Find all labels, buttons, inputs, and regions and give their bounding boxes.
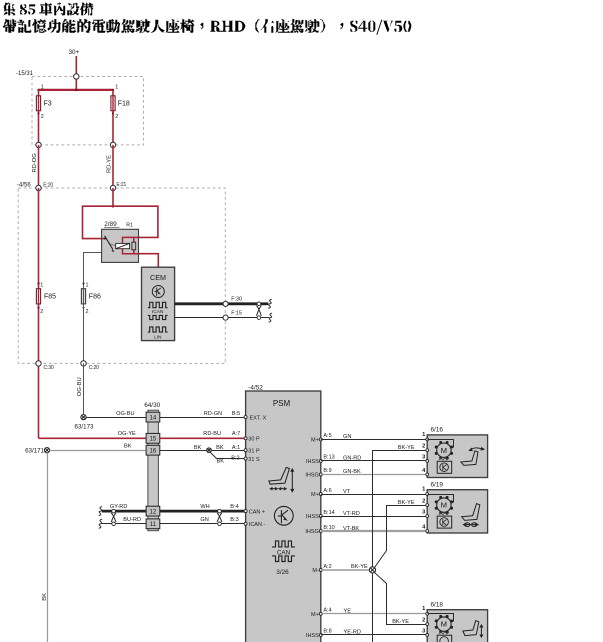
svg-text:16: 16 xyxy=(150,449,157,455)
splice 63/171 xyxy=(44,448,49,453)
svg-text:BK: BK xyxy=(216,445,224,451)
CEM area box 4/56 (dashed) xyxy=(18,188,225,363)
6/16 K box xyxy=(437,461,452,473)
pin 2 dot F85 xyxy=(37,307,39,309)
svg-text:OG-BU: OG-BU xyxy=(77,377,83,396)
6/18 link zigzag xyxy=(439,632,449,634)
svg-text:CAN +: CAN + xyxy=(249,509,265,515)
svg-text:M-: M- xyxy=(312,568,319,574)
seat motor module 6/18 xyxy=(427,610,487,642)
svg-text:30+: 30+ xyxy=(69,49,80,56)
CEM ICAN wave upper xyxy=(148,302,168,307)
CEM K symbol xyxy=(152,286,164,298)
svg-text:1: 1 xyxy=(41,85,44,91)
fuse F18 xyxy=(111,96,115,111)
svg-text:OG-BU: OG-BU xyxy=(116,411,134,417)
wire RD-OG xyxy=(38,145,40,188)
junction dot relay feed xyxy=(112,205,115,208)
svg-text:31 P: 31 P xyxy=(248,448,260,454)
svg-text:E:20: E:20 xyxy=(43,182,53,188)
wire RD-GN pin14 to PSM EXT.X xyxy=(160,417,244,419)
svg-text:F85: F85 xyxy=(44,293,56,300)
svg-text:VT-BK: VT-BK xyxy=(343,526,359,532)
control module PSM 4/52 xyxy=(246,391,321,642)
wire break curl F:30 xyxy=(268,299,271,308)
svg-text:IHSS: IHSS xyxy=(306,514,319,520)
wire relay to F86 xyxy=(84,253,102,290)
svg-text:1: 1 xyxy=(86,283,89,289)
connector circle at 15/31 top xyxy=(74,74,79,79)
wire YE-RD to 6/18 pin3 xyxy=(321,634,427,636)
svg-text:M: M xyxy=(441,620,447,629)
CEM LIN wave xyxy=(148,327,168,332)
6/16 pin 1 circle xyxy=(426,438,429,441)
wire BK pin16 to PSM 31P xyxy=(160,450,244,452)
PSM right pin B:14 xyxy=(319,515,322,518)
control module CEM xyxy=(142,267,175,340)
pin 15 of 64/30 xyxy=(146,433,160,443)
wire WH pin12 to PSM CAN+ xyxy=(160,510,244,513)
PSM right pin B:9 xyxy=(319,473,322,476)
svg-text:1: 1 xyxy=(115,85,118,91)
PSM CAN wave lower xyxy=(272,556,295,562)
svg-text:A:7: A:7 xyxy=(232,431,240,437)
svg-text:IHSS: IHSS xyxy=(306,633,319,639)
svg-text:GN: GN xyxy=(343,434,351,440)
svg-text:F:30: F:30 xyxy=(231,296,242,302)
connector C20 xyxy=(81,361,86,366)
PSM left pin at y=417.1 xyxy=(244,416,247,419)
svg-text:BK-YE: BK-YE xyxy=(398,445,415,451)
wire relay coil feed (right loop) xyxy=(113,206,158,237)
twisted pair symbol left xyxy=(111,509,116,525)
wire break curl GY-RD xyxy=(99,507,102,516)
wire stub to break F:30 xyxy=(261,302,269,305)
svg-text:IHSG: IHSG xyxy=(305,473,318,479)
connector circle below F18 xyxy=(110,142,115,147)
svg-text:F:15: F:15 xyxy=(231,310,242,316)
svg-text:VT-RD: VT-RD xyxy=(343,511,360,517)
wire OG-YE red feed to pin 15 xyxy=(39,437,147,439)
connector circle F:15 xyxy=(223,315,228,320)
svg-text:15: 15 xyxy=(150,437,157,443)
PSM K symbol xyxy=(274,506,293,525)
wire GN-BK to 6/16 pin4 xyxy=(321,474,427,476)
svg-text:2/89: 2/89 xyxy=(104,221,117,228)
wire 30+ feed xyxy=(75,56,77,90)
splice 63/173 xyxy=(81,415,86,420)
wire VT to 6/19 pin1 xyxy=(321,494,427,496)
svg-text:GN-RD: GN-RD xyxy=(343,456,361,462)
wire CEM LIN thin to F:15 xyxy=(175,317,259,319)
wire BK down to bottom xyxy=(47,453,49,642)
svg-text:BK-YE: BK-YE xyxy=(392,619,409,625)
svg-text:VT: VT xyxy=(343,489,351,495)
svg-text:RD-GN: RD-GN xyxy=(204,411,222,417)
connector C30 xyxy=(36,361,41,366)
pin 2 dot F18 xyxy=(112,112,114,114)
seat motor module 6/16 xyxy=(427,435,487,478)
wire RD-YE xyxy=(112,145,114,188)
svg-text:63/171: 63/171 xyxy=(25,448,44,455)
6/19 motor M xyxy=(435,496,453,514)
6/16 pin 3 circle xyxy=(426,460,429,463)
svg-text:6/19: 6/19 xyxy=(431,481,444,488)
svg-text:YE: YE xyxy=(344,609,352,615)
svg-text:LIN: LIN xyxy=(154,334,162,340)
wire GN-RD to 6/16 pin3 xyxy=(321,460,427,462)
wire BK-YE to 6/16 pin2 xyxy=(373,451,428,568)
svg-text:2: 2 xyxy=(422,444,425,450)
6/19 link zigzag xyxy=(439,513,449,515)
PSM right pin B:8 xyxy=(319,633,322,636)
6/18 pin 3 circle xyxy=(426,634,429,637)
PSM left pin at y=458.6 xyxy=(244,457,247,460)
PSM CAN wave upper xyxy=(272,541,295,547)
svg-text:M+: M+ xyxy=(311,612,319,618)
svg-text:B:14: B:14 xyxy=(323,510,334,516)
svg-text:BK-YE: BK-YE xyxy=(398,500,415,506)
svg-text:WH: WH xyxy=(200,504,209,510)
connector E21 xyxy=(110,185,115,190)
svg-text:31 S: 31 S xyxy=(248,457,260,463)
6/19 wire pin1 to motor xyxy=(428,495,454,503)
fuse box 15/31 (dashed) xyxy=(32,77,144,145)
wire F86 to C20 xyxy=(83,304,85,364)
pin 16 of 64/30 xyxy=(146,445,160,455)
fuse F85 xyxy=(36,289,40,304)
svg-text:12: 12 xyxy=(150,509,157,515)
svg-text:EXT. X: EXT. X xyxy=(250,415,267,421)
PSM right pin A:6 xyxy=(319,493,322,496)
svg-text:A:6: A:6 xyxy=(323,488,331,494)
PSM left pin at y=523.8 xyxy=(244,522,247,525)
svg-text:RD-BU: RD-BU xyxy=(203,431,221,437)
wire GN pin11 to PSM ICAN- xyxy=(160,523,244,525)
relay 2/89 R1 xyxy=(102,229,139,262)
wire VT-BK to 6/19 pin4 xyxy=(321,530,427,532)
svg-text:B:4: B:4 xyxy=(230,504,238,510)
svg-text:ICAN -: ICAN - xyxy=(249,522,266,528)
svg-text:B:9: B:9 xyxy=(323,468,331,474)
svg-text:6/16: 6/16 xyxy=(431,427,444,434)
svg-text:CEM: CEM xyxy=(150,273,166,282)
PSM right pin A:2 xyxy=(319,569,322,572)
wire YE to 6/18 pin1 xyxy=(321,613,427,615)
6/16 pin 4 circle xyxy=(426,473,429,476)
svg-text:R1: R1 xyxy=(126,222,133,228)
svg-text:B:2: B:2 xyxy=(231,455,239,461)
CEM ICAN wave lower xyxy=(148,315,168,319)
splice BK-YE node xyxy=(369,567,375,573)
6/18 pin 1 circle xyxy=(426,612,429,615)
6/19 seat icon (fore-aft slide) xyxy=(462,504,480,527)
svg-text:IHSG: IHSG xyxy=(305,529,318,535)
svg-text:M+: M+ xyxy=(311,492,319,498)
svg-text:6/18: 6/18 xyxy=(431,601,444,608)
svg-text:GN: GN xyxy=(200,517,208,523)
6/19 pin 2 circle xyxy=(426,504,429,507)
svg-text:B:5: B:5 xyxy=(232,411,240,417)
svg-text:-15/31: -15/31 xyxy=(16,71,34,77)
wire stub to break F:15 xyxy=(261,317,269,319)
connector circle F:30 xyxy=(223,301,228,306)
wire red bus bar xyxy=(39,89,114,91)
PSM left pin at y=438.3 xyxy=(244,437,247,440)
PSM right pin B:13 xyxy=(319,459,322,462)
svg-text:BK: BK xyxy=(194,445,202,451)
svg-text:63/173: 63/173 xyxy=(75,423,94,430)
svg-text:2: 2 xyxy=(40,309,43,315)
6/16 wire pin1 to motor xyxy=(428,440,454,448)
svg-text:BK: BK xyxy=(42,593,48,601)
pin 1 dot F85 xyxy=(37,282,39,284)
svg-text:2: 2 xyxy=(422,499,425,505)
wire break curl F:15 xyxy=(269,313,272,322)
6/18 pin 2 circle xyxy=(426,623,429,626)
svg-text:RD-OG: RD-OG xyxy=(32,153,38,173)
6/16 motor M xyxy=(435,441,453,459)
svg-text:BU-RD: BU-RD xyxy=(123,517,141,523)
connector E20 xyxy=(36,185,41,190)
PSM right pin B:10 xyxy=(319,530,322,533)
wire F18 branch xyxy=(112,90,114,145)
pin 14 of 64/30 xyxy=(146,412,160,422)
svg-text:B:13: B:13 xyxy=(323,455,334,461)
wire OG-BU down xyxy=(83,363,85,414)
wire BK-YE from PSM M- xyxy=(321,569,370,571)
6/16 seat icon (backrest tilt) xyxy=(461,447,485,466)
wire GY-RD thick xyxy=(102,510,146,513)
svg-text:OG-YE: OG-YE xyxy=(118,431,136,437)
6/18 seat icon (height) xyxy=(463,621,484,639)
svg-text:F3: F3 xyxy=(44,101,52,108)
svg-text:BK: BK xyxy=(124,444,132,450)
svg-text:ICAN: ICAN xyxy=(152,309,164,315)
6/19 pin 4 circle xyxy=(426,530,429,533)
wire BU-RD xyxy=(102,523,146,525)
fuse F3 xyxy=(36,96,40,111)
6/19 pin 1 circle xyxy=(426,493,429,496)
svg-text:A:4: A:4 xyxy=(323,608,331,614)
svg-text:BK-YE: BK-YE xyxy=(351,564,368,570)
wire relay switch feed (left loop) xyxy=(83,206,114,238)
svg-text:IHSS: IHSS xyxy=(306,459,319,465)
svg-text:B:10: B:10 xyxy=(323,525,334,531)
svg-text:2: 2 xyxy=(422,618,425,624)
svg-text:3/26: 3/26 xyxy=(276,569,289,576)
PSM seat icon xyxy=(269,467,295,492)
svg-text:A:2: A:2 xyxy=(323,564,331,570)
twisted pair symbol CEM out xyxy=(257,302,262,319)
6/18 K box partial xyxy=(437,635,452,642)
svg-text:2: 2 xyxy=(86,309,89,315)
svg-text:RD-YE: RD-YE xyxy=(107,155,113,173)
svg-text:F18: F18 xyxy=(118,101,130,108)
connector strip 64/30 xyxy=(148,410,159,531)
fuse F86 xyxy=(81,289,85,304)
twisted pair symbol right xyxy=(217,509,222,525)
wire VT-RD to 6/19 pin3 xyxy=(321,516,427,518)
title line 2: 帶記憶功能的電動駕駛人座椅，RHD（右座駕駛），S40/V50 xyxy=(3,19,412,35)
svg-text:C:30: C:30 xyxy=(44,365,54,371)
wire F3 branch xyxy=(38,90,40,145)
wire OG-BU to pin 14 xyxy=(84,417,147,419)
svg-text:PSM: PSM xyxy=(273,399,291,408)
svg-text:M: M xyxy=(441,446,447,455)
6/19 K box xyxy=(437,516,452,528)
pin 11 of 64/30 xyxy=(146,519,160,529)
wire RD-BU pin15 to PSM 30P xyxy=(160,437,244,439)
svg-text:CAN: CAN xyxy=(277,549,291,556)
pin 12 of 64/30 xyxy=(146,506,160,516)
junction dot bus xyxy=(75,89,78,92)
svg-text:B:8: B:8 xyxy=(323,629,331,635)
wire BK-YE to 6/18 pin2 xyxy=(375,573,428,625)
svg-text:30 P: 30 P xyxy=(248,437,260,443)
6/18 motor M xyxy=(435,615,453,633)
svg-text:M+: M+ xyxy=(311,438,319,444)
wire BK-YE to 6/19 pin2 xyxy=(375,506,428,568)
splice BK xyxy=(207,448,212,453)
svg-text:11: 11 xyxy=(150,522,157,528)
svg-text:M: M xyxy=(441,501,447,510)
pin 2 dot F3 xyxy=(37,112,39,114)
svg-text:E:21: E:21 xyxy=(116,182,126,188)
svg-text:2: 2 xyxy=(41,114,44,120)
svg-text:2: 2 xyxy=(115,114,118,120)
wire break curl BU-RD xyxy=(99,519,102,528)
svg-text:C:20: C:20 xyxy=(89,365,99,371)
title line 1: 集 85 車內設備 xyxy=(3,2,93,15)
6/19 pin 3 circle xyxy=(426,515,429,518)
wire E20 to fuse F85 down to pin 15 row xyxy=(38,188,40,438)
connector circle below F3 xyxy=(36,142,41,147)
svg-text:-4/52: -4/52 xyxy=(248,384,263,391)
svg-text:BK: BK xyxy=(217,459,225,465)
wire E21 down xyxy=(112,188,114,206)
PSM right pin A:4 xyxy=(319,612,322,615)
PSM left pin at y=450.2 xyxy=(244,449,247,452)
PSM left pin at y=511.1 xyxy=(244,510,247,513)
svg-text:F86: F86 xyxy=(89,293,101,300)
wire BK-YE down offpage xyxy=(372,573,374,642)
wire GN to 6/16 pin1 xyxy=(321,439,427,441)
wire BK branch to PSM 31S xyxy=(211,453,245,459)
svg-text:A:5: A:5 xyxy=(323,433,331,439)
pin 2 dot F86 xyxy=(83,307,85,309)
svg-text:-4/56: -4/56 xyxy=(17,183,31,189)
seat motor module 6/19 xyxy=(427,490,487,533)
svg-text:1: 1 xyxy=(40,283,43,289)
pin 1 dot F86 xyxy=(82,282,84,284)
6/18 wire pin1 to motor xyxy=(428,614,454,622)
svg-text:64/30: 64/30 xyxy=(144,402,160,409)
svg-text:GN-BK: GN-BK xyxy=(343,469,361,475)
svg-text:YE-RD: YE-RD xyxy=(344,630,361,636)
svg-text:B:3: B:3 xyxy=(230,517,238,523)
PSM right pin A:5 xyxy=(319,438,322,441)
6/16 link zigzag xyxy=(439,458,449,460)
svg-text:14: 14 xyxy=(150,415,157,421)
6/16 pin 2 circle xyxy=(426,449,429,452)
wire relay output to CEM xyxy=(139,254,159,268)
svg-text:A:1: A:1 xyxy=(232,445,240,451)
wire BK to pin 16 xyxy=(50,450,147,452)
wire CEM CAN thick to F:30 xyxy=(175,302,259,305)
